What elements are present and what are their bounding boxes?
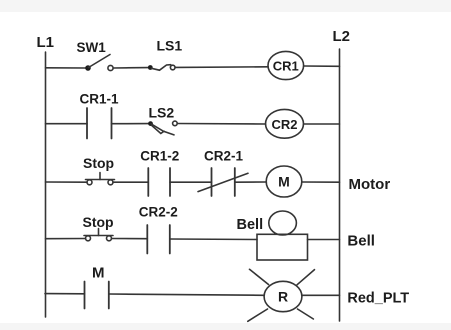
svg-text:Stop: Stop [83, 155, 114, 171]
wire M contact to pilot light [109, 294, 264, 295]
wire pilot light to rail [302, 294, 340, 296]
wire LS1 to CR1 coil [175, 66, 268, 69]
svg-text:M: M [278, 174, 290, 190]
pilot light R [248, 269, 315, 321]
svg-text:CR2: CR2 [271, 117, 297, 132]
wire CR2 coil to rail [304, 123, 340, 125]
svg-text:Bell: Bell [347, 233, 375, 250]
svg-text:Bell: Bell [237, 217, 264, 233]
contact CR1-1 [87, 108, 112, 139]
contact CR1-2 [148, 168, 170, 196]
svg-text:R: R [278, 289, 288, 305]
wire bell to rail [308, 239, 340, 241]
svg-text:LS1: LS1 [157, 38, 183, 54]
svg-text:Motor: Motor [349, 176, 391, 193]
pushbutton Stop (rung4) [84, 229, 113, 241]
svg-text:CR2-1: CR2-1 [204, 149, 244, 164]
wire LS2 to CR2 coil [177, 123, 265, 126]
contact CR2-2 [147, 225, 170, 254]
limit switch LS1 [148, 65, 175, 71]
wire CR2-2 to bell [170, 238, 257, 241]
coil M [266, 166, 302, 197]
svg-text:M: M [92, 265, 105, 282]
coil CR2 [266, 109, 304, 138]
svg-text:Red_PLT: Red_PLT [347, 291, 409, 307]
contact M [85, 282, 109, 309]
pushbutton Stop (rung3) [86, 173, 115, 185]
wire Stop to CR1-2 [113, 181, 148, 183]
svg-text:CR1-2: CR1-2 [140, 149, 179, 164]
svg-text:CR2-2: CR2-2 [139, 205, 178, 220]
coil CR1 [268, 51, 304, 79]
wire M coil to rail [302, 181, 340, 183]
wire CR1 coil to rail [304, 65, 340, 67]
wire CR1-1 to LS2 [112, 123, 149, 125]
wire rung2 rail to CR1-1 [46, 123, 88, 125]
svg-text:Stop: Stop [83, 214, 114, 230]
svg-text:SW1: SW1 [77, 40, 107, 55]
wire CR1-2 to CR2-1 [170, 181, 212, 183]
bell (rectangle with gong) [257, 211, 308, 260]
svg-text:CR1-1: CR1-1 [80, 92, 120, 107]
wire rung1 rail to SW1 [46, 67, 87, 69]
svg-text:L1: L1 [37, 34, 55, 51]
contact CR2-1 (NC) [198, 168, 248, 196]
svg-text:LS2: LS2 [149, 105, 175, 121]
svg-text:L2: L2 [333, 28, 351, 45]
wire Stop to CR2-2 [112, 238, 148, 240]
svg-text:CR1: CR1 [273, 59, 299, 74]
limit switch LS2 [148, 121, 177, 135]
wire rung5 rail to M contact [45, 293, 85, 295]
switch SW1 [85, 55, 113, 71]
wire CR2-1 to M coil [235, 181, 267, 183]
wire rung3 rail to Stop [46, 181, 88, 183]
wire SW1 to LS1 [113, 67, 148, 69]
left rail L1 [45, 52, 47, 317]
wire rung4 rail to Stop [46, 238, 86, 240]
right rail L2 [339, 49, 341, 321]
